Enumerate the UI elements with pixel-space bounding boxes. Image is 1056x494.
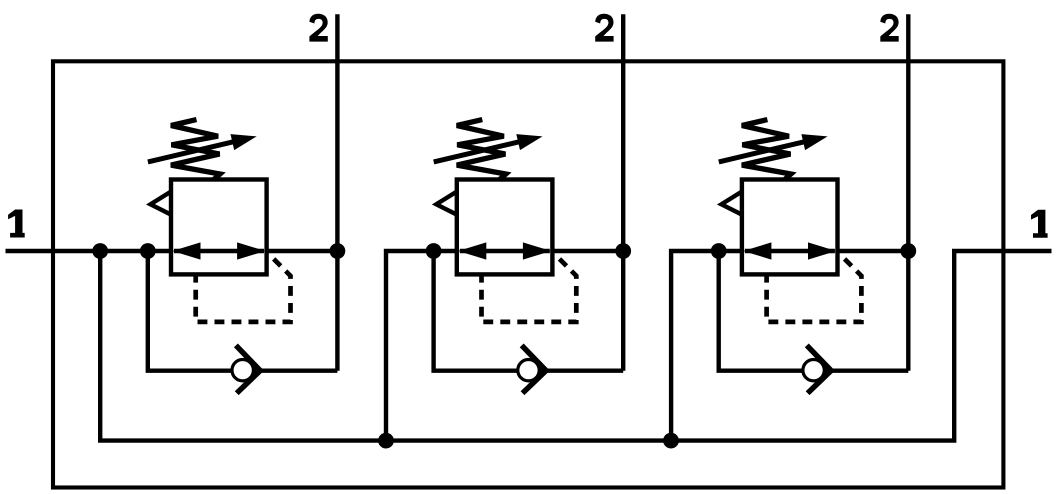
relief vent triangle (unit 2) bbox=[436, 191, 457, 215]
adjustment arrow (unit 2) bbox=[434, 141, 523, 162]
flow path arrows inside U3 bbox=[745, 249, 835, 253]
port label 2 (unit 1) bbox=[309, 14, 327, 42]
junction: supply node A bbox=[92, 243, 108, 259]
adjustment spring (unit 2) bbox=[457, 120, 506, 180]
flow path arrows inside U1 bbox=[174, 249, 264, 253]
junction: node C / port 2 (unit 2) bbox=[615, 243, 631, 259]
wire: bypass loop left/bottom (unit 3) bbox=[719, 251, 909, 371]
wire: bypass loop left/bottom (node B to check valve to port 2 line) bbox=[148, 251, 338, 371]
port label 2 (unit 3) bbox=[880, 14, 898, 42]
port label 1 (left) bbox=[8, 210, 25, 238]
wire: port 2 riser (unit 2) bbox=[621, 14, 625, 370]
manifold enclosure bbox=[53, 61, 1003, 487]
adjustment arrow bbox=[148, 141, 237, 162]
junction: node B (unit 1) bbox=[140, 243, 156, 259]
adjustment arrow (unit 3) bbox=[719, 141, 808, 162]
junction: node C / port 2 (unit 3) bbox=[900, 243, 916, 259]
pilot line (dashed, unit 2) bbox=[482, 256, 577, 322]
wire: unit 3 feed from bus and main line bbox=[671, 251, 908, 441]
check valve V2 bbox=[518, 345, 546, 393]
pilot line (dashed, unit 3) bbox=[767, 256, 862, 322]
junction: node C / port 2 (unit 1) bbox=[330, 243, 346, 259]
regulator body U1 bbox=[171, 180, 267, 275]
junction: bus node (unit 3 feed) bbox=[663, 433, 679, 449]
check valve V1 bbox=[232, 345, 260, 393]
wire: port 1 supply line (left entry) bbox=[6, 249, 338, 253]
wire: unit 2 feed from bus and main line bbox=[386, 251, 623, 441]
adjustment spring (unit 3) bbox=[742, 120, 791, 180]
relief vent triangle (unit 3) bbox=[721, 191, 742, 215]
wire: port 2 riser (unit 3) bbox=[906, 14, 910, 370]
relief vent triangle bbox=[151, 191, 172, 215]
wire: port 2 riser bbox=[335, 14, 339, 370]
junction: node B (unit 2) bbox=[426, 243, 442, 259]
adjustment spring bbox=[171, 120, 220, 180]
regulator body U2 bbox=[457, 180, 553, 275]
junction: node B (unit 3) bbox=[711, 243, 727, 259]
pilot line (dashed) bbox=[196, 256, 291, 322]
check valve V3 bbox=[803, 345, 831, 393]
wire: bypass loop left/bottom (unit 2) bbox=[434, 251, 624, 371]
port label 2 (unit 2) bbox=[595, 14, 613, 42]
port label 1 (right) bbox=[1031, 210, 1048, 238]
wire: supply drop leg, bottom bus, right riser and port 1 exit bbox=[100, 251, 1051, 441]
junction: bus node (unit 2 feed) bbox=[378, 433, 394, 449]
regulator body U3 bbox=[742, 180, 838, 275]
flow path arrows inside U2 bbox=[460, 249, 550, 253]
